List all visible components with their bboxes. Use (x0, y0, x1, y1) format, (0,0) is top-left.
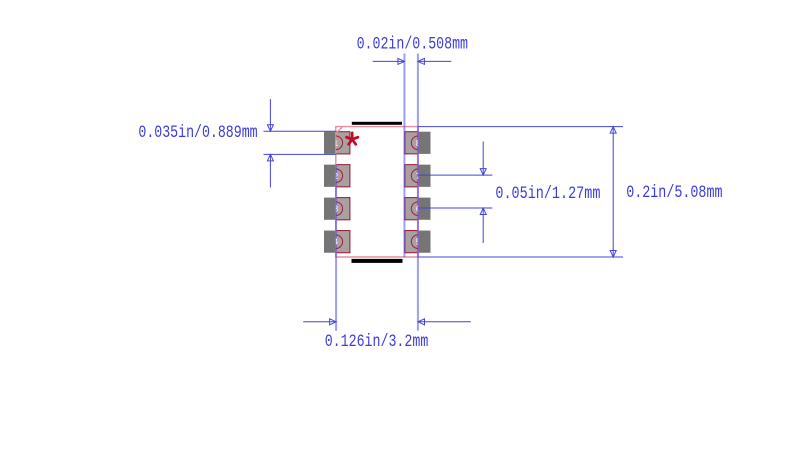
svg-text:0.126in/3.2mm: 0.126in/3.2mm (325, 332, 429, 352)
left dim down (267, 125, 273, 132)
pad 1 (left col) (324, 132, 350, 154)
bottom dim right-pointing (330, 319, 337, 325)
pad 7 (405, 165, 431, 187)
lead overlay pin 5 (405, 231, 418, 253)
left dim up (267, 154, 273, 161)
pin numbers 8-5 (right, half clipped) (416, 139, 421, 247)
lead overlay pin 7 (405, 165, 418, 187)
extension line left (x=336.1) (335, 165, 337, 331)
top dim left-pointing (418, 58, 425, 64)
lead overlay pin 8 (405, 132, 418, 154)
pin 1 asterisk marker (347, 133, 358, 145)
arrowheads (open triangles) (267, 58, 616, 324)
0.2 dim down (610, 251, 616, 258)
pad 6 (405, 198, 431, 220)
lead overlay pin 4 (336, 231, 350, 253)
pin circle 3 (336, 202, 343, 216)
lead overlay pin 2 (336, 165, 350, 187)
extension line mid (x=404.45) (403, 54, 405, 258)
top dim right-pointing (398, 58, 405, 64)
component body outline (336, 127, 418, 257)
pin-1 chamfer mark (336, 127, 343, 134)
pin circle 6 (411, 202, 418, 216)
0.2 dim up (610, 127, 616, 134)
svg-text:0.2in/5.08mm: 0.2in/5.08mm (626, 183, 722, 203)
label 0.2in/5.08mm (626, 183, 722, 203)
0.05 dim down (480, 169, 486, 176)
bottom dim arrow lines (303, 321, 336, 323)
pin circle 8 (411, 136, 418, 150)
extension line right (x=417.9) (417, 54, 419, 331)
0.2 dim vertical (612, 127, 614, 257)
label 0.02in/0.508mm (357, 34, 468, 54)
lead overlay pin 1 (336, 132, 350, 154)
pad 8 (right col top) (405, 132, 431, 154)
top dim arrow lines (373, 60, 405, 62)
0.05 dim leaders (418, 174, 492, 176)
bottom dim left-pointing (418, 319, 425, 325)
pin circle 5 (411, 235, 418, 249)
svg-text:0.02in/0.508mm: 0.02in/0.508mm (357, 34, 468, 54)
label 0.05in/1.27mm (495, 183, 600, 203)
dimension lines (264, 61, 624, 321)
silkscreen bar top (352, 122, 402, 125)
pin circle 1 (336, 136, 343, 150)
lead overlay pin 3 (336, 198, 350, 220)
left dim verticals (269, 99, 271, 131)
pin numbers 1-4 (left, half clipped) (334, 139, 339, 247)
pin circle 4 (336, 235, 343, 249)
pad 2 (324, 165, 350, 187)
pad 3 (324, 198, 350, 220)
0.05 dim verticals (482, 142, 484, 176)
svg-text:0.05in/1.27mm: 0.05in/1.27mm (495, 183, 600, 203)
silkscreen bar bottom (352, 259, 403, 263)
0.2 dim leaders (418, 126, 623, 128)
label 0.126in/3.2mm (325, 332, 429, 352)
svg-text:0.035in/0.889mm: 0.035in/0.889mm (138, 122, 257, 142)
left dim leaders (264, 130, 337, 132)
lead overlay pin 6 (405, 198, 418, 220)
pin circle 2 (336, 169, 343, 183)
pad 5 (405, 231, 431, 253)
pin circle 7 (411, 169, 418, 183)
label 0.035in/0.889mm (138, 122, 257, 142)
pad 4 (324, 231, 350, 253)
0.05 dim up (480, 208, 486, 215)
